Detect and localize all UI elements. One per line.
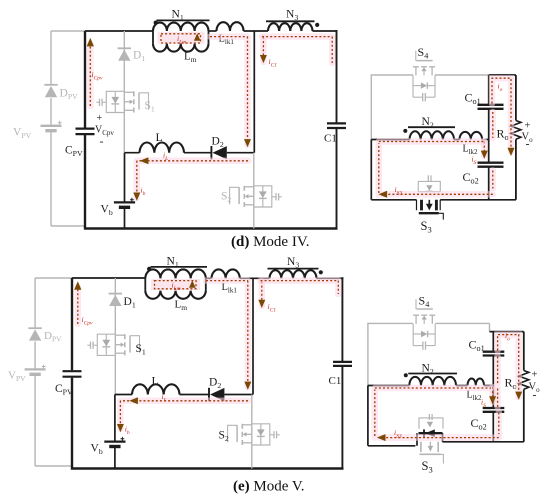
current path dashed to C1 Mode V [261, 281, 339, 294]
svg-text:S4: S4 [418, 45, 429, 61]
svg-text:S3: S3 [422, 459, 433, 475]
svg-text:-: - [100, 134, 104, 148]
svg-text:Ro: Ro [497, 127, 509, 143]
magnetizing inductance Lm winding [153, 44, 208, 52]
svg-text:C1: C1 [324, 133, 337, 145]
svg-text:D1: D1 [124, 296, 136, 310]
switch S4 mosfet Mode V [413, 314, 419, 316]
wire: junction drop Mode V [252, 278, 254, 394]
wire: junction drop to D2 row [253, 31, 255, 153]
svg-text:S1: S1 [145, 100, 155, 114]
current path dashed: transformer to D2 Mode V [206, 281, 248, 387]
capacitor Co1 [478, 105, 504, 109]
svg-text:VPV: VPV [8, 370, 26, 384]
wire: top rail Mode V [72, 277, 145, 279]
capacitor Co2 [478, 163, 504, 167]
svg-text:CPV: CPV [55, 383, 73, 397]
winding N2 row wire Mode V [368, 385, 493, 387]
switch S4 mosfet [413, 66, 419, 68]
svg-text:N1: N1 [172, 9, 184, 23]
leakage inductor Llk1 Mode V [212, 269, 240, 278]
current iCpv dashed arrow Mode V [75, 287, 82, 324]
capacitor C1 [327, 123, 346, 128]
diode DPV Mode V [28, 327, 41, 329]
wire: sub bottom rail Mode V [368, 386, 524, 446]
wire: grey PV branch left vertical [50, 31, 52, 226]
svg-text:iC1: iC1 [268, 302, 277, 314]
dot N3 [315, 23, 319, 27]
inductor L Mode V [132, 384, 179, 394]
svg-text:DPV: DPV [44, 330, 62, 344]
current path dashed: transformer to D2 junction [210, 37, 248, 145]
svg-text:DPV: DPV [60, 88, 79, 102]
svg-text:iS3: iS3 [394, 428, 402, 440]
battery Vb Mode V [104, 440, 125, 442]
switch S2 mosfet Mode V [241, 424, 243, 429]
winding N2 [410, 131, 455, 139]
svg-text:VCpv: VCpv [95, 125, 114, 138]
current iS dashed arrow [481, 142, 488, 157]
current iC1 stub arrow Mode V [259, 282, 266, 307]
svg-text:Llk1: Llk1 [222, 282, 238, 295]
svg-text:VPV: VPV [13, 127, 32, 141]
diode D1 Mode V [109, 293, 122, 295]
svg-text:-: - [533, 388, 537, 402]
wire: Llk1 to N3 [244, 30, 269, 32]
current iL/ib dashed path Mode V [120, 401, 248, 429]
wire: bottom rail [84, 227, 338, 229]
wire: left rail with CPV gap [84, 31, 86, 229]
svg-text:D1: D1 [133, 50, 145, 64]
wire: top corner to Ro Mode V [490, 332, 524, 352]
capacitor CPV Mode V [63, 371, 82, 377]
wire: right rail with C1 gap [336, 30, 338, 230]
wire: Llk1 to N3 Mode V [240, 277, 270, 279]
svg-text:iS: iS [481, 398, 486, 410]
diode D1 branch wire [123, 31, 125, 153]
wire: grey PV branch bottom return [51, 225, 85, 227]
svg-text:+: + [525, 121, 531, 132]
svg-text:Co1: Co1 [469, 338, 485, 354]
svg-text:N3: N3 [287, 256, 299, 270]
wire: N1 to Llk1 Mode V [206, 277, 212, 279]
current io dashed loop [492, 78, 511, 152]
wire: top rail [85, 30, 153, 32]
leakage inductor Llk2 Mode V [468, 378, 485, 385]
svg-text:Co1: Co1 [465, 91, 481, 107]
wire: N3 to right rail Mode V [317, 277, 344, 279]
wire: S4 grey loop [371, 75, 488, 140]
wire: sub bottom rail [371, 140, 516, 200]
resistor Ro [515, 75, 517, 121]
current path dashed: top to C1 [262, 37, 332, 63]
current iLm dashed loop [158, 32, 205, 44]
switch S2 mosfet [243, 186, 245, 191]
transformer core bar N1 Mode V [151, 266, 208, 268]
transformer N1 winding Mode V [145, 269, 206, 278]
current iLm dashed loop Mode V [151, 279, 200, 290]
wire: grey PV branch Mode V [35, 278, 72, 466]
capacitor CPV [76, 129, 95, 135]
svg-text:S1: S1 [136, 343, 146, 357]
svg-text:N2: N2 [422, 116, 434, 130]
leakage inductor Llk1 [217, 22, 244, 31]
current iC1 stub arrow [260, 37, 267, 62]
transformer N1 winding [153, 23, 208, 31]
svg-text:Llk2: Llk2 [467, 390, 483, 403]
wire: right rail with C1 gap Mode V [341, 277, 343, 469]
svg-text:(d) Mode IV.: (d) Mode IV. [231, 234, 309, 250]
wire: battery branch Mode V [114, 395, 116, 469]
svg-text:iS: iS [472, 155, 477, 167]
svg-text:N2: N2 [422, 363, 434, 377]
switch S3 diode conduction Mode V [419, 432, 443, 434]
svg-text:S3: S3 [421, 219, 432, 235]
leakage inductor Llk2 [460, 132, 483, 140]
current iS dashed arrow Mode V [489, 387, 496, 402]
wire: center vertical Mode V [492, 356, 494, 442]
svg-text:ib: ib [125, 425, 130, 437]
svg-text:L: L [152, 374, 159, 388]
capacitor Co2 Mode V [483, 408, 505, 412]
core bar N3 Mode V [268, 268, 319, 270]
dot N2 [403, 129, 407, 133]
wire: S4 grey loop Mode V [368, 323, 490, 385]
wire: N1 to Llk1 [209, 30, 217, 32]
core bar N2 [408, 126, 455, 128]
svg-text:Vb: Vb [91, 443, 103, 457]
svg-text:io: io [498, 82, 503, 94]
svg-text:iS3: iS3 [395, 185, 403, 197]
svg-text:iC1: iC1 [269, 57, 278, 69]
current io dashed loop Mode V [498, 335, 519, 397]
svg-text:Ro: Ro [505, 376, 517, 392]
current iL/ib dashed path [137, 161, 248, 198]
source VPV [41, 125, 62, 127]
dashed center segments Mode V [498, 357, 499, 435]
core bar N3 [266, 20, 315, 22]
switch S2 branch wire [253, 153, 255, 229]
core bar N2 Mode V [408, 373, 457, 375]
svg-text:C1: C1 [329, 375, 342, 387]
diode DPV [44, 84, 57, 86]
switch S2 branch wire Mode V [251, 395, 253, 469]
diode D1 branch wire Mode V [114, 278, 116, 395]
svg-text:CPV: CPV [65, 145, 83, 159]
svg-text:ib: ib [141, 186, 146, 198]
svg-text:Co2: Co2 [463, 170, 479, 186]
current iCpv dashed arrow [87, 44, 94, 106]
dot N1 [154, 21, 158, 25]
current iS3 dashed loop Mode V [375, 388, 499, 438]
dashed below Co1 [490, 112, 497, 138]
svg-text:(e) Mode V.: (e) Mode V. [233, 479, 305, 495]
wire: left rail Mode V [71, 278, 73, 470]
magnetizing inductance Lm Mode V [145, 291, 206, 299]
wire: bottom rail Mode V [71, 467, 344, 469]
wire: battery branch [124, 153, 126, 229]
svg-text:Llk2: Llk2 [463, 144, 479, 157]
svg-text:+: + [97, 113, 103, 124]
capacitor C1 Mode V [333, 362, 352, 366]
snubber S3 grey box [418, 181, 440, 191]
switch S3 grey mosfet Mode V [421, 442, 438, 452]
svg-text:N3: N3 [286, 9, 298, 23]
winding N3 [268, 23, 313, 31]
switch S3 inline [417, 200, 441, 211]
diode D1 [118, 47, 131, 49]
snubber S3 grey box Mode V [419, 418, 443, 429]
capacitor Co1 Mode V [483, 352, 505, 356]
svg-text:Co2: Co2 [471, 416, 487, 432]
switch S1 mosfet Mode V [124, 334, 126, 339]
wire: grey PV branch top [51, 30, 85, 32]
svg-text:L: L [156, 130, 163, 144]
inductor L row wire [125, 152, 212, 154]
wire: N3 to right rail [313, 30, 338, 32]
diode D2 Mode V [208, 388, 210, 401]
dot N3 Mode V [319, 270, 323, 274]
resistor Ro Mode V [523, 332, 525, 371]
diode D2 [210, 146, 212, 159]
transformer core bar N1 [157, 19, 210, 21]
svg-text:iCpv: iCpv [82, 315, 94, 327]
svg-text:N1: N1 [167, 256, 179, 270]
svg-text:Lm: Lm [184, 51, 197, 65]
current iS3 dashed loop [379, 142, 493, 195]
wire: center vertical Co1-Co2 [488, 109, 490, 200]
winding N3 Mode V [270, 270, 317, 278]
wire: top right corner to Ro branch [489, 75, 516, 104]
svg-text:iCpv: iCpv [92, 70, 104, 82]
svg-text:-: - [526, 137, 530, 151]
source VPV Mode V [25, 368, 46, 370]
svg-text:Vb: Vb [101, 204, 113, 218]
winding N2 Mode V [409, 377, 456, 386]
switch S1 mosfet [133, 91, 135, 96]
svg-text:+: + [532, 370, 538, 381]
svg-text:S4: S4 [419, 294, 430, 310]
dot N2 Mode V [404, 373, 408, 377]
svg-text:D2: D2 [209, 377, 221, 391]
battery Vb [114, 201, 135, 203]
winding N2 row wire [371, 139, 488, 141]
inductor L [140, 142, 184, 152]
svg-text:Lm: Lm [175, 299, 188, 313]
inductor L row wire Mode V [115, 394, 209, 396]
svg-text:D2: D2 [212, 136, 224, 150]
dot N1 Mode V [147, 267, 151, 271]
